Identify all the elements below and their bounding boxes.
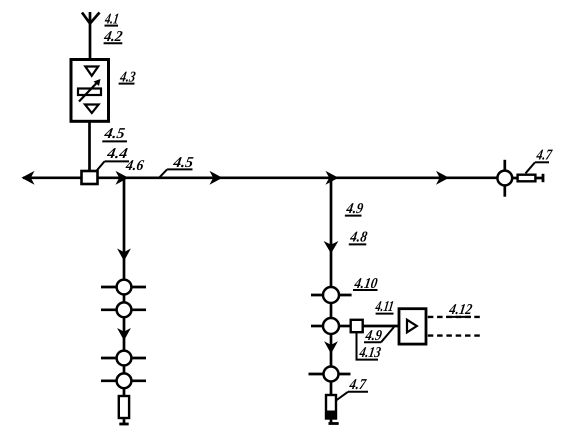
main bus wire (23, 176, 498, 179)
tap stubs L1 (101, 286, 146, 289)
wire L3-L4 (123, 365, 126, 373)
terminator resistor middle (326, 395, 336, 419)
variable attenuator (78, 79, 101, 102)
terminator resistor left (119, 396, 129, 418)
leader 4.13 (357, 332, 379, 359)
coupler stub down (503, 185, 506, 196)
tap stubs L3 (101, 357, 146, 360)
terminator resistor right (518, 175, 536, 182)
leader 4.9 lower (381, 327, 394, 342)
wire resistor to end bar (535, 177, 542, 180)
label 4.9 lower (364, 327, 394, 344)
label 4.12 (446, 302, 474, 318)
tap square 4.4 (82, 171, 98, 184)
label 4.8 (348, 229, 368, 245)
svg-text:4.11: 4.11 (374, 299, 395, 315)
wire L2-L3 (123, 317, 126, 350)
dashed output line upper (428, 316, 481, 318)
svg-text:4.4: 4.4 (105, 146, 129, 162)
antenna W1 (82, 12, 100, 60)
directional coupler circle right (497, 171, 512, 186)
flow arrow down (324, 341, 338, 354)
label 4.4 (97, 146, 130, 171)
label 4.2 (102, 29, 124, 45)
wire L1-L2 (123, 294, 126, 302)
amplifier triangle bottom (85, 105, 99, 114)
branch wire middle (330, 178, 333, 287)
wire resistor to end bar (330, 419, 333, 423)
amplifier unit box 4.3 (71, 60, 109, 122)
tap square 4.13 (351, 320, 363, 332)
amplifier triangle top (85, 67, 98, 76)
svg-text:4.5: 4.5 (102, 126, 126, 142)
svg-text:4.12: 4.12 (447, 302, 473, 318)
amplifier box 4.11 (399, 309, 426, 344)
tap stub M2 left (311, 325, 322, 328)
svg-text:4.5: 4.5 (171, 155, 195, 171)
label 4.5 upper (102, 126, 127, 142)
wire resistor to end bar (123, 418, 126, 423)
svg-text:4.13: 4.13 (358, 345, 383, 361)
flow arrow down (117, 328, 131, 341)
wire tap square to amplifier (363, 325, 399, 328)
wire M3 to terminator (330, 382, 333, 396)
splitter circle M3 (324, 367, 339, 382)
bus arrow 1 (116, 171, 129, 185)
end bar middle (329, 422, 339, 425)
leader 4.5 (159, 169, 167, 177)
flow arrow down (324, 241, 339, 254)
tap stubs M3 (309, 373, 351, 376)
splitter circle M1 (323, 287, 339, 303)
end bar left (119, 423, 128, 426)
wire M2-M3 (330, 334, 333, 367)
end bar right (542, 174, 545, 182)
wire M2 to tap square (340, 325, 351, 328)
bus arrow 4 (436, 171, 449, 185)
coupler stub up (503, 160, 506, 171)
label 4.3 (118, 70, 137, 86)
wire box to tap square (88, 121, 91, 171)
svg-text:4.6: 4.6 (124, 158, 145, 174)
wire M1-M2 (330, 303, 333, 318)
svg-text:4.9: 4.9 (344, 201, 364, 217)
leader 4.7 middle (336, 392, 348, 401)
label 4.10 (353, 276, 379, 292)
wire coupler to resistor (512, 177, 517, 180)
splitter circle L4 (117, 373, 132, 388)
dashed output line lower (428, 334, 481, 336)
label 4.1 (103, 12, 120, 28)
splitter circle L2 (117, 302, 132, 317)
label 4.7 middle (336, 377, 368, 400)
tap stubs L2 (101, 308, 146, 311)
tap stubs L4 (101, 379, 146, 382)
label 4.5 on bus (159, 155, 195, 178)
leader 4.7 right (526, 162, 536, 173)
svg-text:4.8: 4.8 (348, 229, 368, 245)
wire L4 to terminator (123, 388, 126, 396)
bus arrow 2 (210, 171, 223, 185)
amplifier triangle (407, 320, 417, 333)
label 4.11 (374, 299, 395, 315)
tap stubs M1 (311, 294, 352, 297)
bus arrow 3 (326, 171, 339, 185)
splitter circle L1 (117, 280, 132, 295)
splitter circle M2 (323, 318, 339, 334)
left arrowhead (22, 171, 35, 185)
flow arrow down (117, 249, 131, 262)
splitter circle L3 (117, 351, 132, 366)
label 4.9 (344, 201, 364, 217)
branch wire left (123, 178, 126, 280)
leader 4.4 (97, 161, 105, 170)
label 4.7 right (526, 148, 555, 174)
